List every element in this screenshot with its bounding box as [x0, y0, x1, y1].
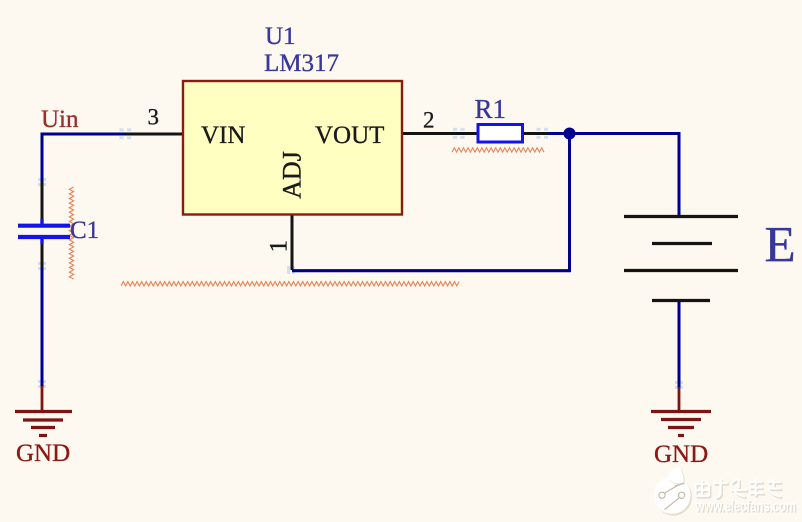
svg-text:VOUT: VOUT	[315, 122, 384, 149]
svg-text:3: 3	[148, 105, 160, 130]
svg-text:GND: GND	[654, 441, 708, 468]
svg-text:1: 1	[266, 240, 293, 253]
svg-text:www.elecfans.com: www.elecfans.com	[695, 497, 796, 515]
svg-text:C1: C1	[70, 217, 99, 244]
svg-text:LM317: LM317	[264, 50, 339, 77]
svg-text:R1: R1	[475, 94, 507, 124]
svg-text:VIN: VIN	[201, 122, 245, 149]
svg-text:GND: GND	[16, 440, 70, 467]
svg-text:E: E	[765, 218, 796, 274]
svg-text:2: 2	[423, 108, 435, 133]
svg-text:ADJ: ADJ	[278, 151, 307, 199]
svg-text:Uin: Uin	[41, 106, 79, 133]
svg-text:U1: U1	[265, 23, 296, 50]
